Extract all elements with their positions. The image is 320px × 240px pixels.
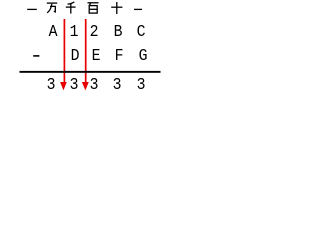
horizontal rule xyxy=(20,71,161,73)
header char 千 xyxy=(66,2,76,14)
red arrow 1 (between ten-thousands and thousands) xyxy=(60,19,67,90)
header char 一 (ones) xyxy=(134,8,142,10)
header char 百 xyxy=(88,3,99,13)
header char 一 (wan prefix) xyxy=(27,8,37,10)
red arrow 2 (between thousands and hundreds) xyxy=(82,19,89,90)
header char 十 xyxy=(111,2,122,14)
result row 3 3 3 3 3 xyxy=(47,77,56,94)
minus sign xyxy=(33,55,39,57)
header char 万 xyxy=(47,3,57,13)
place-value header (drawn as SVG) and red arrows xyxy=(0,0,180,100)
subtrahend row D E F G xyxy=(70,48,79,65)
minuend row A 1 2 B C xyxy=(48,24,57,41)
